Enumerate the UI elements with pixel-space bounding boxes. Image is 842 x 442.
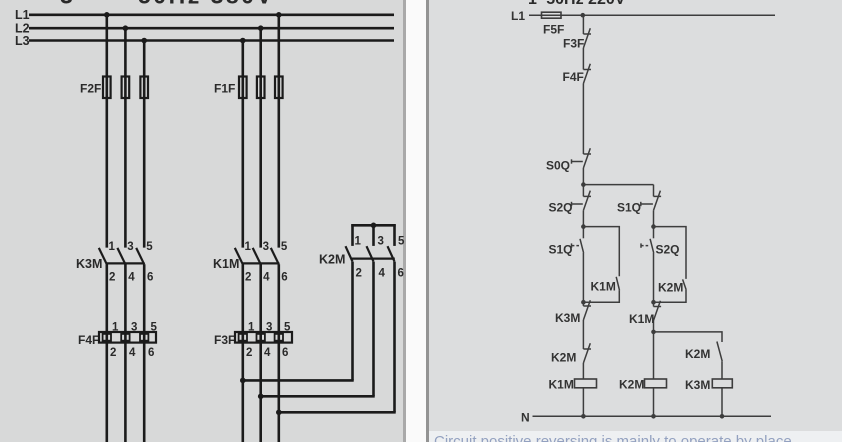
wire K2M NO to K3M coil [721, 361, 723, 379]
svg-text:F3F: F3F [214, 333, 235, 347]
svg-text:K2M: K2M [551, 351, 576, 365]
svg-text:3: 3 [131, 322, 137, 334]
svg-text:K3M: K3M [555, 311, 580, 325]
contactor K2M [319, 223, 405, 280]
svg-text:S2Q: S2Q [656, 242, 680, 256]
F4F body [99, 332, 156, 343]
svg-text:Circuit positive reversing is: Circuit positive reversing is mainly to … [434, 433, 792, 442]
wire K1M pole1 down [242, 264, 245, 442]
wire K1M NC to node F [653, 321, 655, 380]
svg-text:1: 1 [245, 241, 252, 253]
node L3/F1F junction [240, 38, 246, 44]
node K2M star point [371, 223, 377, 229]
F4F heater pole2 [121, 334, 129, 341]
node L1/F1F junction [276, 12, 282, 18]
wire K3M pole2 to motor [124, 264, 127, 442]
K2M linkage bar [352, 258, 395, 260]
svg-text:K2M: K2M [619, 377, 644, 391]
svg-text:6: 6 [398, 268, 404, 280]
node F3F3/K2M3 [276, 410, 282, 416]
svg-text:S2Q: S2Q [549, 201, 573, 215]
fuse F1F pole3 [275, 77, 283, 99]
wire S1Q to latch node [582, 253, 584, 306]
svg-text:3: 3 [263, 241, 269, 253]
contact K1M pole2 blade [253, 248, 261, 264]
wire latch bottom [583, 290, 619, 302]
node C (latch rejoin branch1) [581, 300, 586, 305]
NC contact K1M (branch2) [654, 301, 662, 321]
svg-text:S1Q: S1Q [617, 201, 641, 215]
contact K1M pole3 blade [271, 248, 279, 264]
svg-text:2: 2 [109, 272, 115, 284]
wire K1M pole2 down [259, 264, 262, 442]
K1M latch loop [583, 227, 619, 303]
svg-text:2: 2 [246, 347, 252, 359]
svg-text:50Hz 380V: 50Hz 380V [138, 0, 274, 9]
svg-text:S0Q: S0Q [546, 158, 570, 172]
wire link F3F2 to K2M2 [261, 395, 375, 398]
wire node A to branch 2 [583, 184, 653, 186]
node E (latch rejoin branch2) [651, 300, 656, 305]
coil K3M [712, 379, 732, 388]
NC contact K2M (branch1) [583, 343, 591, 363]
K2M star bar [351, 224, 395, 227]
contactor K1M [213, 241, 288, 284]
wire K2M pole3 down [393, 262, 396, 413]
svg-text:1: 1 [109, 241, 116, 253]
wire latch2 bottom [654, 290, 687, 302]
K2M latch loop [654, 227, 687, 303]
right page background [429, 0, 842, 431]
fuse F2F pole3 [140, 77, 148, 99]
node L3/F2F junction [141, 38, 147, 44]
wire phase A drop 3 (L3 to K3M pole3) [143, 41, 146, 248]
wire phase B drop 2 (L2 to K1M pole2) [259, 28, 262, 247]
wire S0Q to node A [582, 168, 584, 196]
svg-text:5: 5 [398, 236, 405, 248]
coil K2M [645, 379, 667, 388]
contact K2M pole2 blade [367, 246, 374, 261]
F3F body [235, 332, 292, 343]
fuse F2F pole2 [122, 77, 130, 99]
wire K2M contact to K1M coil [582, 363, 584, 379]
svg-text:F2F: F2F [80, 82, 101, 96]
wire S1Q NC to node D [653, 210, 655, 238]
K3M linkage bar [106, 262, 145, 264]
wire K2M stub3 [393, 224, 396, 246]
node L2/F1F junction [258, 25, 264, 31]
wire K2M coil to N [653, 388, 655, 417]
K1M linkage bar [242, 262, 279, 264]
NC contact F3F [583, 28, 591, 48]
node D (S1Q lower / latch tap branch2) [651, 224, 656, 229]
wire K3M pole1 to motor [106, 264, 109, 442]
node F3F2/K2M2 [258, 394, 264, 400]
svg-text:L1: L1 [511, 9, 525, 23]
contact K2M pole3 blade [388, 246, 395, 261]
coil K1M [575, 379, 597, 388]
wire K3M to K2M contact [582, 320, 584, 349]
node N/K1M [581, 414, 586, 419]
wire N line [533, 415, 772, 417]
wire link F3F1 to K2M1 [243, 379, 354, 382]
svg-text:K1M: K1M [591, 279, 616, 293]
svg-text:F4F: F4F [78, 333, 99, 347]
F4F heater pole1 [103, 334, 111, 341]
wire F4F to S0Q [582, 84, 584, 155]
F4F heater pole3 [140, 334, 148, 341]
wire L1 feeder [529, 14, 775, 16]
branch 1 (K1M coil branch) on x=583.4 [572, 15, 597, 416]
svg-text:L3: L3 [15, 34, 30, 48]
node B (S2Q lower / latch tap) [581, 224, 586, 229]
svg-text:2: 2 [356, 268, 362, 280]
wire K1M pole3 down [277, 264, 280, 442]
F3F heater pole3 [275, 334, 283, 341]
wire F3F to F4F [582, 48, 584, 70]
NO contact K2M (branch3) [717, 342, 722, 362]
contact K2M pole1 blade [346, 246, 353, 261]
branch 2 (K2M coil branch) on x=653.5 [641, 185, 667, 417]
F3F heater pole1 [239, 334, 247, 341]
svg-text:5: 5 [284, 322, 291, 334]
svg-text:N: N [521, 410, 530, 424]
NC pushbutton S1Q [641, 191, 661, 211]
wire phase B drop 1 (L3 to K1M pole1) [242, 41, 245, 248]
svg-text:3: 3 [266, 322, 272, 334]
wire link F3F3 to K2M3 [279, 411, 396, 414]
svg-text:6: 6 [148, 347, 154, 359]
NO pushbutton S2Q [641, 239, 654, 253]
node N/K2M [651, 414, 656, 419]
svg-text:3 ~: 3 ~ [60, 0, 102, 9]
svg-text:K1M: K1M [213, 257, 239, 271]
contact K3M pole1 blade [99, 248, 107, 264]
wire S2Q to node B [582, 210, 584, 238]
svg-text:K1M: K1M [549, 377, 574, 391]
svg-text:2: 2 [245, 272, 251, 284]
wires below K3M to bottom edge [107, 264, 279, 442]
contact K3M pole2 blade [117, 248, 125, 264]
wire node F to branch3 [654, 332, 723, 342]
left page background [0, 0, 404, 442]
svg-text:4: 4 [264, 347, 271, 359]
svg-text:6: 6 [282, 347, 288, 359]
svg-text:F4F: F4F [563, 70, 584, 84]
F3F heater pole2 [257, 334, 265, 341]
wire K2M stub2 [372, 225, 375, 246]
svg-text:S1Q: S1Q [549, 242, 573, 256]
wire K2M stub1 [351, 224, 354, 246]
wire S2Q NO to node E [653, 253, 655, 307]
node L1 tap [581, 13, 586, 18]
K2M lower wiring [243, 262, 396, 413]
contact K3M pole3 blade [136, 248, 144, 264]
svg-text:6: 6 [147, 272, 153, 284]
svg-text:F3F: F3F [563, 37, 584, 51]
node N/K3M [720, 414, 725, 419]
node A (top of parallel branches) [581, 182, 586, 187]
svg-text:3: 3 [127, 241, 133, 253]
NC pushbutton S0Q [572, 148, 592, 168]
fuse F1F pole2 [257, 77, 265, 99]
contact K1M pole1 blade [235, 248, 243, 264]
svg-text:1: 1 [112, 322, 119, 334]
wire K2M pole2 down [372, 262, 375, 397]
svg-text:1: 1 [355, 236, 362, 248]
svg-text:K2M: K2M [319, 253, 345, 267]
fuse F2F pole1 [103, 77, 111, 99]
LEFT SCHEMATIC [29, 15, 394, 41]
wire K3M coil to N [721, 388, 723, 417]
NC pushbutton S2Q [572, 191, 592, 211]
fuse F5F [542, 12, 562, 18]
svg-text:F5F: F5F [543, 23, 564, 37]
overload relay F4F [78, 322, 158, 360]
overload relay F3F [214, 322, 292, 360]
svg-text:5: 5 [151, 322, 158, 334]
bus L3 [29, 39, 394, 42]
svg-text:4: 4 [263, 272, 270, 284]
wire K3M pole3 to motor [143, 264, 146, 442]
svg-text:4: 4 [129, 347, 136, 359]
svg-text:5: 5 [281, 241, 288, 253]
svg-text:K2M: K2M [685, 347, 710, 361]
wire K1M coil to N [582, 388, 584, 417]
svg-text:K1M: K1M [629, 312, 654, 326]
wire phase A drop 2 (L2 to K3M pole2) [124, 28, 127, 247]
NC contact K3M [583, 300, 591, 320]
svg-text:K3M: K3M [76, 257, 102, 271]
svg-text:F1F: F1F [214, 82, 235, 96]
svg-text:4: 4 [379, 268, 386, 280]
wire K2M pole1 down [351, 262, 354, 381]
wire latch2 tap top [654, 227, 687, 279]
svg-text:5: 5 [146, 241, 153, 253]
svg-text:4: 4 [128, 272, 135, 284]
contactor K3M [76, 241, 153, 284]
svg-text:K2M: K2M [658, 281, 683, 295]
fuse F1F pole1 [239, 77, 247, 99]
svg-text:3: 3 [378, 236, 384, 248]
svg-text:2: 2 [110, 347, 116, 359]
wire latch tap top [583, 227, 619, 277]
branch 3 (K3M coil branch) on x=722 [654, 332, 733, 416]
svg-text:K3M: K3M [685, 378, 710, 392]
wire tap to F3F contact [582, 15, 584, 34]
node F (K3M branch tap) [651, 330, 656, 335]
wire phase B drop 3 (L1 to K1M pole3) [277, 15, 280, 248]
bus L1 [29, 14, 394, 17]
NO pushbutton S1Q [572, 239, 584, 253]
NO contact K2M (latch) [683, 279, 687, 290]
wire phase A drop 1 (L1 to K3M pole1) [106, 15, 109, 248]
wire node A to S1Q NC [653, 185, 655, 197]
bus L2 [29, 27, 394, 30]
node L2/F2F junction [123, 25, 129, 31]
svg-text:6: 6 [281, 272, 287, 284]
svg-text:L1: L1 [15, 8, 30, 22]
divider gutter [403, 0, 406, 442]
NC contact F4F [583, 64, 591, 84]
NO contact K1M (latch) [616, 277, 619, 291]
node L1/F2F junction [104, 12, 110, 18]
node F3F1/K2M1 [240, 378, 246, 384]
svg-text:1: 1 [248, 322, 255, 334]
svg-text:1~50Hz 220V: 1~50Hz 220V [528, 0, 626, 8]
